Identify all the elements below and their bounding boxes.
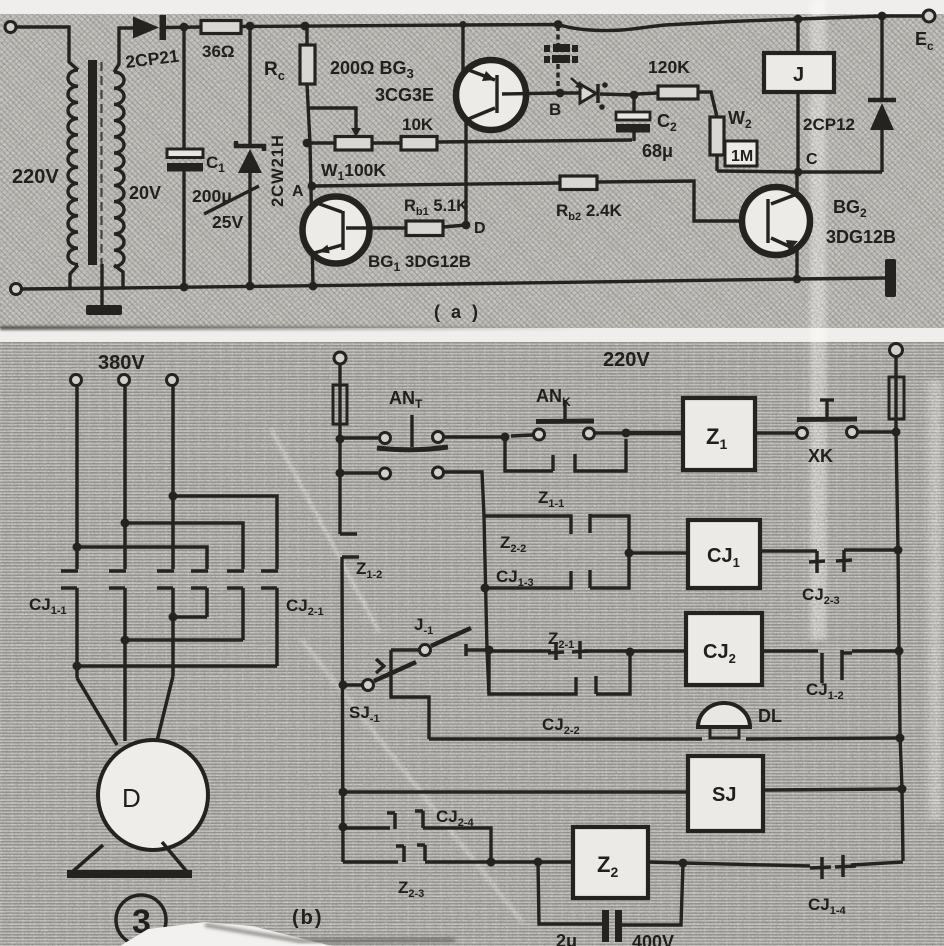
button AN_T (NC) <box>340 436 378 439</box>
figure number 3 <box>116 895 166 945</box>
bottom bus wire <box>22 278 886 289</box>
svg-text:220V: 220V <box>603 349 650 371</box>
transformer core <box>88 60 97 265</box>
contact CJ2-3 (NC) <box>760 549 817 552</box>
svg-text:C: C <box>806 151 818 168</box>
svg-text:120K: 120K <box>648 57 690 77</box>
node (diode output) <box>180 23 189 32</box>
resistor Rb1 5.1K <box>406 221 443 236</box>
contact CJ2-2 (NO bypass) <box>489 651 630 694</box>
wire <box>16 27 78 70</box>
left rail wire <box>338 364 341 534</box>
contactor coil CJ2 <box>686 613 762 685</box>
transformer T1 primary winding 220V <box>68 70 78 264</box>
capacitor 2u 400V <box>538 862 602 924</box>
relay coil J <box>794 15 803 24</box>
svg-text:BG1 3DG12B: BG1 3DG12B <box>368 252 471 274</box>
terminal L1 <box>71 375 82 386</box>
wire lower L2 <box>123 615 127 741</box>
zener diode 2CW21H <box>248 26 251 146</box>
contact Z2-1 (NO, capacitor style) <box>485 646 494 655</box>
svg-text:3DG12B: 3DG12B <box>826 227 896 247</box>
svg-text:SJ: SJ <box>712 784 736 806</box>
svg-text:1M: 1M <box>731 148 753 165</box>
node row1 <box>336 435 345 444</box>
wire branch L3 to CJ2-1 <box>173 496 277 569</box>
svg-text:DL: DL <box>758 706 782 726</box>
svg-text:(b): (b) <box>292 907 324 929</box>
svg-text:68μ: 68μ <box>642 141 673 161</box>
button AN_K (NO) <box>511 435 533 436</box>
transformer T1 secondary winding 20V <box>114 72 124 266</box>
wire L3 <box>171 386 175 569</box>
svg-text:D: D <box>474 220 486 237</box>
node row2 <box>336 469 345 478</box>
contact Z2-3 (NO) <box>343 860 398 863</box>
relay coil Z1 <box>626 431 683 436</box>
svg-text:2CW21H: 2CW21H <box>269 134 287 207</box>
top bus wire <box>241 16 923 31</box>
resistor 10K <box>372 141 401 144</box>
right rail wire <box>896 357 903 861</box>
contact Z1-2 (in rail) <box>340 532 357 536</box>
wire SJ-1 fixed to J-1 <box>391 650 429 739</box>
wire lower L1 <box>75 615 79 678</box>
svg-text:2μ: 2μ <box>556 931 577 946</box>
terminal L3 <box>167 375 178 386</box>
capacitor C2 68u <box>630 91 639 100</box>
signal lamp DL <box>429 737 702 740</box>
svg-text:400V: 400V <box>632 932 674 946</box>
contact AN_T second (NO) <box>340 471 378 474</box>
wire branch L2 to CJ2-1 <box>125 523 243 569</box>
potentiometer W1 100K <box>307 141 335 144</box>
svg-text:3CG3E: 3CG3E <box>375 85 434 105</box>
contact CJ2-4 (NO) <box>339 823 348 832</box>
svg-text:Rb1 5.1K: Rb1 5.1K <box>404 197 468 218</box>
wire cross to pole4 <box>173 615 207 619</box>
contact CJ1-4 (NO) <box>683 863 810 866</box>
ground bar (a) <box>885 259 896 297</box>
svg-text:10K: 10K <box>402 115 434 134</box>
node L3 branch <box>169 492 178 501</box>
node D <box>462 221 471 230</box>
photodiode <box>563 91 580 94</box>
contactor coil CJ1 <box>625 549 634 558</box>
svg-text:20V: 20V <box>129 183 161 203</box>
wire branch L1 to CJ2-1 <box>77 547 207 569</box>
wire to mid bus <box>444 472 489 694</box>
relay coil Z2 <box>573 827 648 898</box>
resistor 36ohm <box>201 21 241 34</box>
svg-text:J: J <box>793 64 804 86</box>
terminal Ec <box>923 10 935 22</box>
contactor main contacts CJ2-1 (3 poles) <box>191 571 278 666</box>
wire motor lead right <box>156 676 173 745</box>
transistor BG3 <box>460 21 467 28</box>
svg-text:W1100K: W1100K <box>321 160 386 183</box>
fuse left <box>333 385 347 424</box>
svg-text:220V: 220V <box>12 166 59 188</box>
wire lower L3 <box>171 615 175 676</box>
contactor main contacts CJ1-1 (3 poles) <box>61 571 174 615</box>
motor D <box>98 740 208 850</box>
diode 2CP21 <box>133 17 159 39</box>
resistor 120K <box>637 93 658 94</box>
time relay coil SJ <box>339 788 348 797</box>
node L2 branch <box>121 519 130 528</box>
svg-text:380V: 380V <box>98 352 145 374</box>
node (36ohm output) <box>246 22 255 31</box>
svg-text:200Ω BG3: 200Ω BG3 <box>330 58 414 81</box>
contact J-1 (knife) <box>391 648 419 651</box>
svg-text:A: A <box>292 183 304 200</box>
contact SJ-1 (knife, delayed) <box>339 681 348 690</box>
svg-text:Rb2 2.4K: Rb2 2.4K <box>556 201 622 223</box>
wire secondary bottom <box>114 265 123 288</box>
core ground lead <box>100 264 103 307</box>
svg-text:2CP12: 2CP12 <box>803 115 855 134</box>
wire L2 <box>123 386 127 569</box>
contact Z1-1 (NO bypass of AN_K) <box>505 439 626 471</box>
svg-text:36Ω: 36Ω <box>202 42 235 61</box>
terminal L2 <box>119 375 130 386</box>
node B <box>556 89 565 98</box>
wire cross to pole5 <box>125 638 243 642</box>
ground plate <box>86 305 122 315</box>
wire motor lead left <box>77 678 117 745</box>
wire secondary top <box>114 28 133 72</box>
fuse right <box>889 377 904 419</box>
terminal left rail <box>334 352 346 364</box>
photoresistor (dashed element) <box>554 20 563 29</box>
paper grain overlay (a) <box>0 14 944 328</box>
resistor Rb2 2.4K <box>312 183 560 186</box>
wire row C <box>717 171 882 172</box>
contact Z2-2 (NO) <box>484 514 629 552</box>
svg-text:XK: XK <box>808 446 833 466</box>
wire L1 <box>75 386 79 569</box>
terminal input bottom-left <box>11 284 22 295</box>
limit switch XK <box>755 431 796 434</box>
svg-text:( a ): ( a ) <box>434 302 481 322</box>
terminal right rail <box>890 344 903 357</box>
resistor Rc 200ohm <box>301 22 310 31</box>
svg-text:25V: 25V <box>212 212 243 232</box>
paper grain overlay (b) <box>0 342 944 946</box>
diode 2CP12 <box>878 12 887 21</box>
wire <box>70 265 78 289</box>
transistor BG2 <box>742 187 810 255</box>
contact CJ1-3 (NO) <box>485 554 629 588</box>
node L1 branch <box>73 543 82 552</box>
svg-text:D: D <box>122 783 141 813</box>
svg-text:B: B <box>549 100 561 119</box>
transistor BG1 <box>303 197 370 264</box>
contact CJ1-2 (NC) <box>762 649 818 652</box>
capacitor C1 <box>182 27 185 149</box>
wire cross to pole6 <box>77 664 277 668</box>
motor stand <box>71 845 103 873</box>
potentiometer W2 1M <box>710 117 724 155</box>
terminal input top-left <box>5 22 16 33</box>
page corner fold (white wedge) <box>120 922 332 946</box>
